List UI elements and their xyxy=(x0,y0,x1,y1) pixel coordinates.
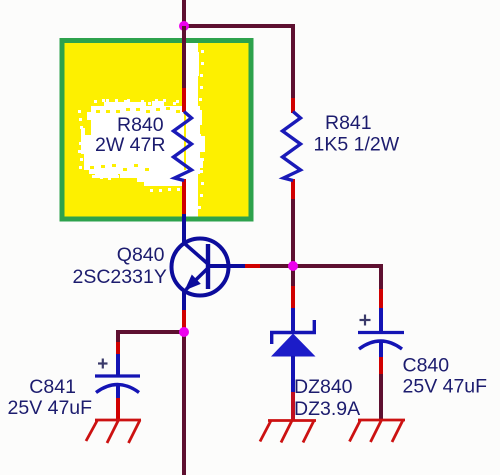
resistor R840 xyxy=(174,112,192,181)
svg-text:25V 47uF: 25V 47uF xyxy=(403,376,488,398)
highlight box yellow fill xyxy=(65,43,249,217)
label C841 xyxy=(8,376,93,419)
ground G1 xyxy=(86,420,141,443)
svg-text:DZ3.9A: DZ3.9A xyxy=(294,398,360,420)
label C840 xyxy=(403,355,488,398)
wire node to C840 branch xyxy=(293,264,383,268)
base wire maroon xyxy=(260,264,293,268)
capacitor C840 xyxy=(358,333,404,350)
zener bottom lead xyxy=(291,356,295,392)
C840 top lead red xyxy=(379,289,383,308)
resistor R841 xyxy=(283,112,301,181)
junction dot J3 xyxy=(179,327,189,337)
junction dot J2 xyxy=(288,261,298,271)
zener branch maroon xyxy=(291,269,295,286)
svg-text:1K5 1/2W: 1K5 1/2W xyxy=(314,134,400,156)
highlight box green border xyxy=(62,41,251,220)
C840 top lead blue xyxy=(379,308,383,332)
label Q840 xyxy=(73,244,167,288)
label R841 xyxy=(314,112,400,156)
wire R841 to node xyxy=(291,199,295,262)
wire R841 branch vertical xyxy=(291,24,295,100)
highlight yellow speckles xyxy=(90,107,180,171)
C840 bottom lead xyxy=(379,341,383,357)
C840 plus sign xyxy=(360,315,371,326)
ground G3 xyxy=(350,420,406,442)
highlight white patches xyxy=(78,43,205,218)
resistor R840 leads xyxy=(182,88,186,112)
resistor R841 leads xyxy=(291,98,295,113)
zener DZ840 triangle xyxy=(271,334,316,357)
ground G2 xyxy=(260,421,316,443)
svg-text:Q840: Q840 xyxy=(117,244,165,266)
transistor emitter arrow xyxy=(185,275,201,291)
svg-text:C841: C841 xyxy=(29,376,76,398)
svg-text:2SC2331Y: 2SC2331Y xyxy=(73,266,167,288)
emitter lead red xyxy=(182,310,186,328)
svg-text:2W 47R: 2W 47R xyxy=(95,134,165,156)
junction dot J1 xyxy=(179,21,189,31)
base lead red xyxy=(245,264,261,268)
wire emitter node to C841 xyxy=(116,330,184,334)
svg-text:25V 47uF: 25V 47uF xyxy=(8,397,93,419)
zener DZ840 cathode bar xyxy=(270,320,316,344)
wire bottom vertical xyxy=(182,332,186,475)
capacitor C841 xyxy=(95,376,140,393)
transistor Q840 collector pin xyxy=(182,214,186,245)
wire top horizontal xyxy=(182,24,295,28)
svg-text:DZ840: DZ840 xyxy=(294,376,353,398)
C841 top lead xyxy=(116,330,120,342)
C841 plus sign xyxy=(98,359,108,369)
transistor emitter pin xyxy=(182,289,186,310)
label R840 xyxy=(95,114,165,156)
svg-text:R840: R840 xyxy=(117,114,164,136)
label DZ840 xyxy=(294,376,360,420)
svg-text:R841: R841 xyxy=(325,112,372,134)
wire top vertical xyxy=(182,0,186,26)
zener top lead red xyxy=(291,286,295,308)
C841 bottom lead xyxy=(116,384,120,398)
zener top lead blue xyxy=(291,308,295,332)
wire R840 in-box upper xyxy=(182,26,186,88)
svg-text:C840: C840 xyxy=(403,355,450,377)
transistor Q840 xyxy=(172,239,246,296)
